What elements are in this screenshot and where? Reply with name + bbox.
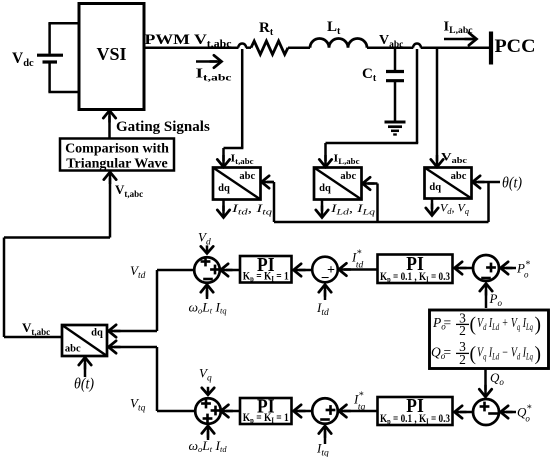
inductor Lt [310,39,367,48]
node It,abc tap [238,44,246,48]
label wLtItq [189,300,227,316]
label Ct [362,66,377,84]
label PCC [495,36,536,57]
label IL,abc [444,19,473,36]
summer S6 [195,398,221,424]
wire [421,46,490,49]
wire [363,177,378,222]
svg-text:=: = [444,315,452,330]
label PI 3 [257,397,275,418]
svg-text:(: ( [470,344,477,365]
wire [157,269,195,272]
label wLtItd [189,438,228,454]
wire [217,200,229,218]
node IL,abc tap [413,44,421,48]
label PI 4 [406,396,424,417]
wire [294,264,313,276]
label Vdc [12,50,34,69]
wire [217,49,243,167]
inverter VSI [79,4,144,110]
svg-text:abc: abc [65,344,81,355]
label theta(t) [74,376,94,393]
svg-text:abc: abc [340,171,356,182]
transform abc-dq U1 [213,168,261,200]
svg-text:dq: dq [91,328,103,339]
power calc block [430,310,549,369]
label Vd Vq [440,201,470,217]
svg-text:Vd ILd + Vq ILq: Vd ILd + Vq ILq [477,315,533,332]
wire [4,238,110,338]
arrow It,abc [196,55,222,67]
wire [48,22,79,25]
label PWM Vt,abc [145,32,233,50]
wire [294,405,313,417]
resistor Rt [251,41,288,54]
label Vq [199,366,212,384]
label IL,abc [334,153,360,167]
wire [246,46,251,49]
wire [339,405,378,417]
label Itd [316,300,329,318]
summer S2 [312,257,338,287]
wire [262,176,275,222]
transform abc-dq U2 [314,168,362,200]
wire [431,48,443,167]
svg-text:dq: dq [429,182,441,193]
wire [319,285,331,300]
svg-text:θ(t): θ(t) [74,376,94,393]
label Kp=0.1 KI=0.3 q [380,413,450,426]
arrow IL,abc [444,33,477,45]
wire [202,387,214,395]
label It,abc [231,153,254,167]
label Vt,abc [115,182,143,199]
svg-text:θ(t): θ(t) [502,175,522,192]
summer S1 [194,257,220,283]
wire [479,369,491,397]
label Vabc [379,33,403,50]
wire [501,262,517,274]
PI controller 3 [240,398,292,424]
label Kp=KI=1 q [243,412,289,425]
label Lt [327,19,341,37]
label Vabc [441,152,468,166]
wire [319,426,331,444]
bus PCC [489,32,493,65]
summer S5 [312,398,338,424]
wire [274,182,489,222]
battery Vdc [37,23,63,92]
label Itq [316,441,329,457]
label Itq* [353,391,365,413]
label Vt,abc [22,320,50,337]
svg-text:): ) [535,315,542,336]
wire [109,270,158,337]
label equation Po [432,310,541,338]
label Gating Signals [116,119,210,135]
svg-text:(: ( [470,315,477,336]
wire [79,357,91,377]
wire [501,406,517,418]
comparison block [60,139,174,171]
ground [385,122,406,135]
transform abc-dq U3 [425,168,472,199]
label PI 1 [257,255,275,276]
svg-text:VSI: VSI [96,44,126,64]
label Qo [490,370,504,387]
label Po* [516,260,530,280]
wire [455,262,474,274]
label Qo* [517,404,531,424]
wire [480,284,492,309]
label Itd Itq [231,201,274,217]
wire [103,111,115,139]
label Kp=0.1 KI=0.3 [380,271,450,284]
wire [201,245,213,253]
transform dq-abc [62,325,107,356]
svg-text:dq: dq [218,183,230,194]
label Po [489,291,503,308]
PI controller 1 [240,256,292,283]
wire [455,406,474,418]
svg-text:Kp = 0.1 , KI = 0.3: Kp = 0.1 , KI = 0.3 [380,413,450,426]
label Kp=KI=1 [243,270,289,283]
svg-text:Gating Signals: Gating Signals [116,119,210,135]
svg-text:Comparison with: Comparison with [65,142,169,157]
wire [221,264,241,276]
label VSI [96,44,126,64]
summer S3 [473,255,499,281]
PI controller 2 [378,255,453,284]
label Vtq [130,396,146,414]
svg-text:Triangular Wave: Triangular Wave [66,157,168,172]
wire [473,176,501,188]
svg-text:): ) [535,344,542,365]
svg-text:abc: abc [239,171,255,182]
label equation Qo [431,339,541,367]
svg-text:abc: abc [451,171,467,182]
wire [202,426,214,440]
wire [319,49,418,167]
label Rt [259,20,274,38]
PI controller 4 [378,397,453,425]
wire [104,172,116,238]
wire [144,46,239,49]
label Vd [198,230,211,248]
svg-text:2: 2 [459,323,466,338]
label Vtd [130,263,146,281]
label theta(t) [502,175,522,192]
svg-text:PCC: PCC [495,36,536,57]
svg-text:Kp = 0.1 , KI = 0.3: Kp = 0.1 , KI = 0.3 [380,271,450,284]
wire [426,199,438,216]
wire [288,46,310,49]
wire [221,405,240,417]
wire [157,410,196,413]
label PI 2 [406,254,424,275]
svg-text:2: 2 [459,352,466,367]
summer S4 [473,399,499,425]
label ILd ILq [330,201,376,217]
label Comparison with Triangular Wave [65,142,169,172]
svg-text:Kp = KI = 1: Kp = KI = 1 [243,412,289,425]
svg-text:Vq ILd − Vd ILq: Vq ILd − Vd ILq [477,345,533,362]
wire [201,285,213,299]
label It,abc [196,66,232,84]
label Itd* [351,249,363,271]
capacitor Ct [386,48,404,121]
svg-text:Kp = KI = 1: Kp = KI = 1 [243,270,289,283]
wire [48,91,79,94]
wire [367,46,413,49]
wire [339,263,378,275]
wire [316,200,328,218]
wire [109,341,158,411]
svg-text:=: = [444,345,452,360]
svg-text:dq: dq [319,183,331,194]
